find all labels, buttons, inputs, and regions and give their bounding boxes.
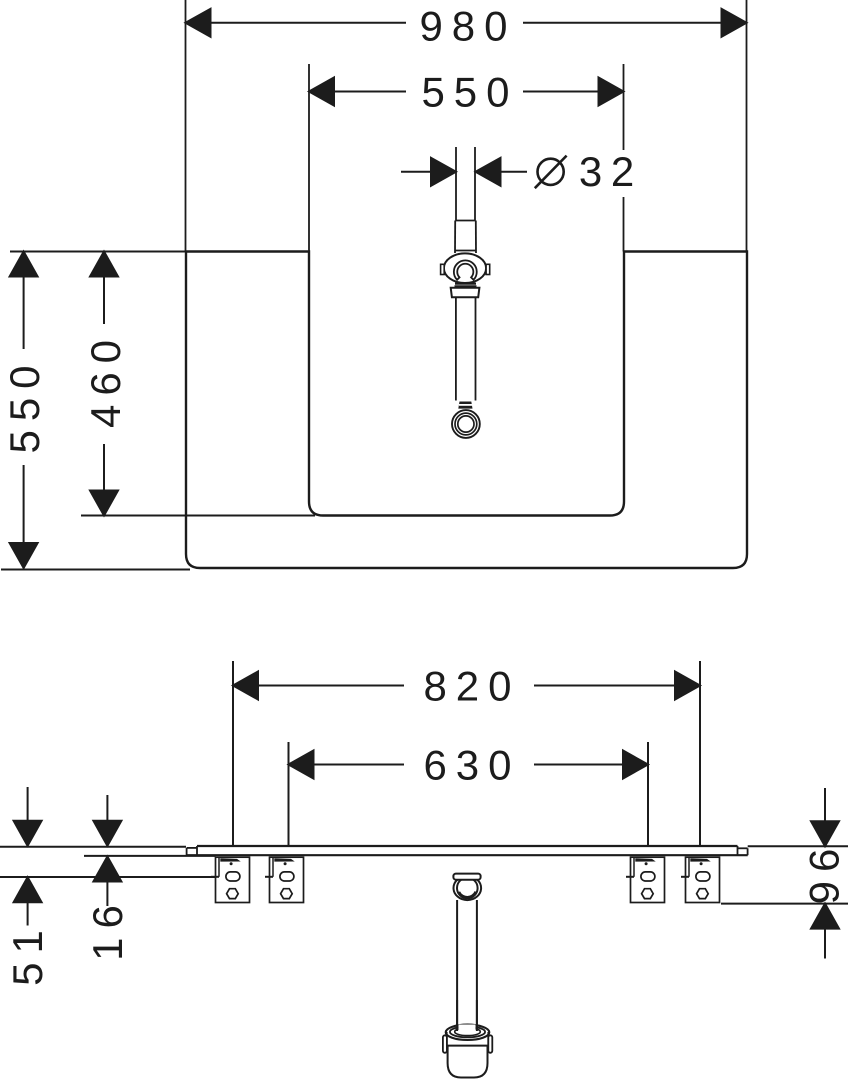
extension line 550 right	[623, 64, 625, 252]
dimension 51	[14, 787, 42, 926]
dimension 460 vertical	[90, 252, 118, 516]
mounting plate side view	[187, 846, 748, 855]
bracket 1	[216, 857, 250, 902]
extension line 460 bottom	[81, 515, 315, 517]
dimension line 980	[186, 9, 747, 37]
extension line 980 left	[185, 0, 187, 252]
pipe end clip	[458, 402, 472, 409]
dimension line 550	[309, 78, 624, 106]
svg-text:16: 16	[84, 896, 131, 961]
svg-text:550: 550	[1, 356, 48, 453]
svg-text:96: 96	[800, 840, 847, 905]
svg-text:460: 460	[82, 331, 129, 428]
extension line bracket bottom right	[721, 903, 848, 905]
trap horseshoe ring	[454, 260, 477, 279]
dimension line 820	[233, 672, 700, 700]
extension line 550 left	[308, 64, 310, 252]
extension line plate bottom left	[84, 855, 216, 857]
svg-text:51: 51	[4, 921, 51, 986]
svg-text:820: 820	[423, 662, 520, 709]
svg-text:2: 2	[611, 148, 634, 195]
bottom trap flange	[453, 874, 480, 880]
extension line top left	[10, 251, 186, 253]
cup tab right	[488, 1035, 492, 1053]
extension line 980 right	[746, 0, 748, 252]
cup upper band	[447, 1032, 489, 1046]
plate right end cap	[738, 846, 748, 855]
extension line plate top right	[748, 845, 848, 847]
extension line 630 left	[288, 742, 290, 845]
bottom trap inlet ring	[454, 876, 482, 900]
bottom trap pipe	[457, 900, 477, 1026]
dimension 96	[811, 788, 839, 959]
extension line 820 right	[699, 661, 701, 845]
svg-text:550: 550	[421, 69, 518, 116]
drain pipe upper section	[455, 147, 476, 253]
diameter symbol	[535, 156, 567, 189]
dimension 16	[93, 795, 121, 906]
bracket 2	[270, 857, 304, 902]
trap joint band	[455, 283, 476, 285]
svg-text:3: 3	[579, 148, 602, 195]
cup rim	[446, 1025, 490, 1040]
svg-text:980: 980	[419, 3, 516, 50]
dimension line 630	[289, 751, 649, 779]
extension line 630 right	[647, 742, 649, 845]
bracket 4	[686, 857, 720, 902]
trap body tab left	[441, 264, 445, 274]
plate left end cap	[187, 846, 197, 855]
dimension 550 left vertical	[10, 252, 38, 569]
trap body ellipse	[444, 253, 486, 283]
extension line bracket bottom left	[0, 876, 219, 878]
pipe end ring	[452, 410, 480, 438]
trap body tab right	[486, 264, 490, 274]
extension line plate top left	[0, 846, 186, 848]
drain pipe mid section	[456, 297, 476, 400]
cup tab left	[443, 1035, 447, 1053]
extension line 550 bottom	[1, 569, 190, 571]
washbasin outline with U cutout	[186, 252, 747, 569]
trap flange	[451, 288, 480, 298]
svg-text:630: 630	[423, 741, 520, 788]
bracket 3	[631, 857, 665, 902]
label O32	[579, 148, 634, 195]
dimension O32	[401, 158, 527, 186]
extension line 820 left	[232, 661, 234, 845]
cup lower body	[448, 1046, 488, 1078]
